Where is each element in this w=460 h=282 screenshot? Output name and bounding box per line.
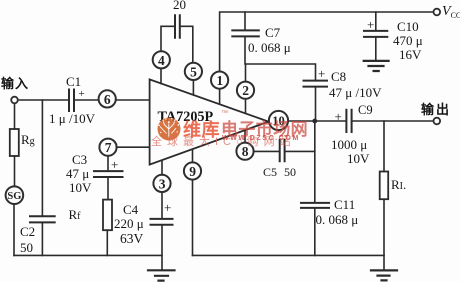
svg-text:2: 2: [242, 83, 249, 98]
svg-text:3: 3: [159, 176, 166, 191]
svg-text:1: 1: [216, 73, 223, 88]
svg-text:6: 6: [104, 92, 111, 107]
svg-text:SG: SG: [7, 191, 21, 202]
svg-text:7: 7: [105, 140, 112, 155]
svg-text:9: 9: [189, 164, 196, 179]
svg-text:4: 4: [158, 53, 165, 68]
svg-text:5: 5: [190, 64, 197, 79]
